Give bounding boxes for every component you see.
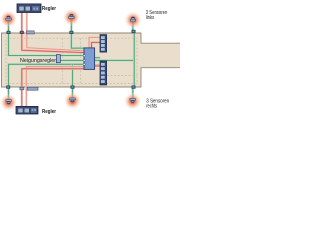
svg-text:Regler: Regler [42, 6, 57, 12]
dashed divider 2 [80, 38, 82, 83]
regler box bottom [16, 106, 38, 114]
vehicle body with drawbar (beige band) [2, 33, 182, 87]
sensor icon 3 top-right [130, 17, 135, 22]
tab top sensor1 [7, 31, 11, 34]
sensor icon 6 bottom-right (flipped) [130, 98, 135, 103]
sensor icon 4 bottom-left (flipped) [6, 100, 11, 105]
wire green long to right loop [60, 59, 134, 62]
wire crimson bottom regler [22, 66, 100, 106]
unit left edge pins [83, 55, 85, 65]
regler box top [17, 4, 41, 13]
svg-text:Neigungsregler: Neigungsregler [20, 58, 56, 64]
tab top crimson [20, 31, 24, 34]
tab bottom sensor4 [6, 86, 10, 89]
wire crimson top-left regler to connector [22, 12, 100, 53]
tab top sensor2 [69, 31, 73, 34]
wire green sensor1 left-top [9, 21, 85, 56]
tab bottom sensor6 [132, 86, 136, 89]
wire salmon bottom regler [26, 65, 100, 107]
dashed divider 3 [107, 75, 137, 77]
lower connector block [100, 61, 107, 85]
glow sensor6 [124, 92, 142, 110]
sensor icon 2 top-mid [69, 14, 74, 19]
neigungsregler component [56, 55, 60, 63]
wire green bottom bus sensor4 [9, 64, 85, 100]
upper connector block [100, 35, 107, 53]
wire green sensor5 drop mid-bottom [71, 64, 74, 98]
tab bottom crimson light [20, 87, 24, 90]
glow sensor3 [124, 11, 142, 29]
svg-text:Regler: Regler [42, 109, 57, 115]
glow sensor4 [0, 93, 18, 111]
wire green stub box to connector [94, 56, 100, 59]
dashed inner outline [6, 38, 137, 83]
wire salmon top-left regler to connector [27, 12, 100, 51]
blue central unit [84, 48, 95, 70]
tab bottom sensor5 [71, 86, 75, 89]
dashed divider 1 [61, 38, 63, 83]
tab top sensor3 [132, 30, 136, 33]
svg-text:links: links [146, 15, 155, 21]
wire green right vertical sensor3 [133, 22, 134, 99]
svg-text:rechts: rechts [146, 104, 157, 110]
sensor icon 5 bottom-mid (flipped) [70, 98, 75, 103]
sensor icon 1 top-left [6, 16, 11, 21]
glow sensor2 [62, 8, 80, 26]
connector bar top edge [27, 31, 35, 34]
connector bar bottom edge [27, 87, 38, 90]
glow sensor5 [64, 92, 82, 110]
glow sensor1 [0, 10, 18, 28]
wire green sensor2 mid-top [71, 20, 84, 49]
